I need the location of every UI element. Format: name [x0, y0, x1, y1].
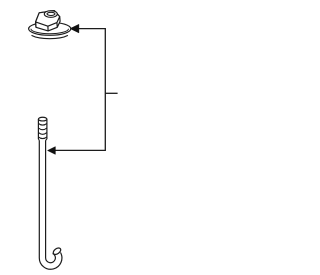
- hex side edge right-front: [56, 23, 58, 28]
- thread ring 2: [38, 128, 47, 130]
- arrowhead to bolt shaft: [48, 147, 56, 155]
- hex top face outline: [36, 11, 60, 27]
- bolt threaded tip: cylinder sides: [37, 119, 39, 139]
- hex side edge front: [47, 26, 49, 31]
- leader line bracket (nut to bolt callout): [55, 29, 105, 151]
- leader tick (part-number stub): [105, 92, 117, 94]
- flange nut: flange bottom thickness arc: [32, 35, 68, 38]
- hook tip end ellipse: [52, 247, 62, 256]
- nut hole bore ellipse: [47, 12, 55, 15]
- bolt shaft left edge + outer hook curve: [39, 140, 62, 269]
- flange nut: flange inner rim ellipse: [31, 29, 69, 34]
- thread ring 4: [38, 137, 47, 139]
- thread ring 3: [38, 133, 47, 135]
- thread-to-shaft step: [38, 139, 47, 140]
- thread ring 1: [38, 123, 47, 125]
- arrowhead to nut: [70, 24, 79, 33]
- bolt threaded tip: top ellipse: [38, 117, 47, 121]
- flange nut: flange top outer ellipse: [29, 22, 71, 35]
- nut hole chamfer ellipse: [44, 11, 57, 18]
- hex side edge left: [35, 22, 37, 27]
- bolt shaft right edge + inner hook curve: [46, 140, 56, 262]
- flange nut: hex body: [36, 11, 61, 31]
